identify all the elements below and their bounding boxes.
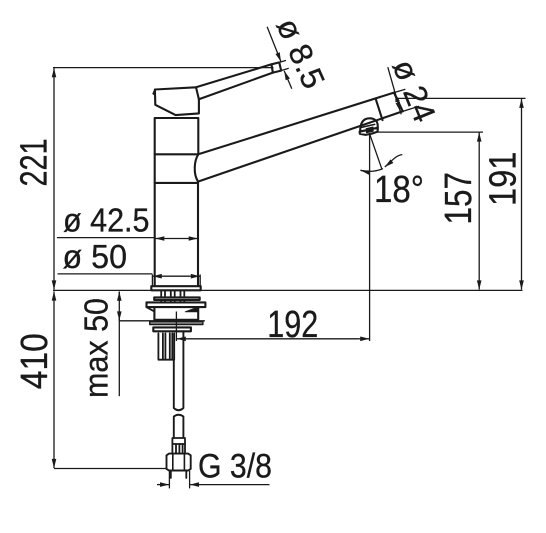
lever rod <box>196 64 273 99</box>
dia 24 arrows <box>395 93 397 101</box>
G3/8 extension lines <box>169 471 189 489</box>
aerator dark slot <box>366 127 373 133</box>
dimension 410 line <box>53 291 55 300</box>
mounting flange <box>147 302 206 307</box>
svg-text:410: 410 <box>14 333 56 389</box>
svg-text:ø 8.5: ø 8.5 <box>270 13 333 94</box>
rubber washer gray <box>150 322 203 325</box>
top extension line <box>53 67 274 69</box>
max50 dimension line <box>118 292 120 302</box>
lever rod tip cap <box>272 62 282 72</box>
dia 50 dimension arrows <box>153 275 163 277</box>
aerator height extension line <box>378 131 483 133</box>
threaded shank mid <box>161 300 184 303</box>
dimension 192 line <box>177 338 188 340</box>
svg-text:ø 50: ø 50 <box>63 238 128 275</box>
faucet centre extension line <box>175 312 177 342</box>
connection nut G3/8 <box>167 454 191 471</box>
clamp body <box>154 307 198 320</box>
18 degree slanted ray <box>370 134 382 169</box>
dia 42.5 shelf line <box>57 237 155 239</box>
spout end cap <box>394 93 403 112</box>
tube below nut <box>171 471 187 479</box>
svg-text:18°: 18° <box>374 169 424 211</box>
dia 50 shelf line <box>58 273 153 275</box>
dia 24 extension bottom <box>400 106 419 112</box>
max50 lower extension line <box>119 320 205 322</box>
dimension 191 line <box>521 99 523 108</box>
spout top edge <box>198 93 394 155</box>
hose ribbed section <box>172 444 185 454</box>
aerator dome <box>360 118 378 131</box>
18 degree curved leader with arrow <box>385 155 403 167</box>
metal washer <box>153 327 191 331</box>
base plate <box>151 286 200 290</box>
dia 24 extension top <box>390 89 405 94</box>
svg-text:ø 42.5: ø 42.5 <box>63 202 150 239</box>
dia 42.5 dimension arrows <box>155 238 165 240</box>
svg-text:192: 192 <box>267 304 318 346</box>
clamp left slant <box>147 307 155 311</box>
threaded shank lower <box>158 333 174 359</box>
bottom extension line 410 <box>54 468 167 470</box>
body ring line lower <box>155 182 198 184</box>
spout tip extension line <box>396 97 526 99</box>
faucet body column <box>155 118 199 286</box>
G3/8 dimension arrows <box>157 484 169 486</box>
washer 1 <box>154 297 200 300</box>
spout joint line <box>376 99 383 120</box>
aerator inner line <box>362 124 375 127</box>
dia 8.5 extension ticks <box>279 60 289 70</box>
aerator axis line <box>369 134 371 341</box>
svg-text:157: 157 <box>438 172 480 225</box>
body ring line upper <box>155 153 199 155</box>
dia 8.5 leader lower <box>284 71 292 89</box>
dia 24 dimension line <box>388 67 401 114</box>
cap left chamfer wedge <box>153 90 155 96</box>
svg-text:max 50: max 50 <box>78 298 115 398</box>
dimension 221 line <box>53 68 55 77</box>
dia 8.5 leader upper <box>267 27 281 62</box>
supply pipe segment 2 <box>174 415 184 438</box>
18 degree arc <box>360 169 383 172</box>
svg-text:G 3/8: G 3/8 <box>198 447 272 485</box>
svg-text:221: 221 <box>14 139 56 187</box>
countertop line <box>53 289 523 291</box>
spout bottom edge <box>198 111 403 181</box>
dia 50 extension lines <box>152 275 200 287</box>
dimension 157 line <box>478 132 480 141</box>
faucet handle cap <box>155 87 199 115</box>
svg-text:191: 191 <box>482 152 524 206</box>
spout root fillet <box>195 154 199 181</box>
18 degree arc arrow left <box>361 170 369 172</box>
aerator base block <box>360 128 378 135</box>
threaded shank upper <box>161 290 184 297</box>
hose collar <box>172 438 185 444</box>
clamp right black wedge <box>185 307 197 312</box>
supply pipe segment 1 <box>174 332 184 411</box>
